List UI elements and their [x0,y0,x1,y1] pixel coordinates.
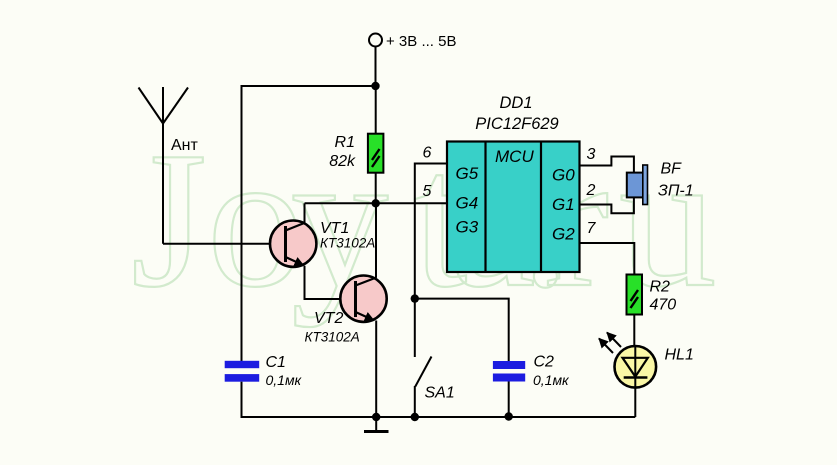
svg-text:C2: C2 [534,354,555,371]
capacitor C1 [225,354,303,388]
wire: VT1 emitter to VT2 base [305,266,355,299]
resistor R1 82k [329,134,383,173]
node: SA1 / ground rail junction [411,413,419,421]
wire: R2 bottom to LED [633,315,635,347]
svg-text:G4: G4 [456,194,479,213]
antenna [139,87,199,244]
transistor VT1 [270,220,375,267]
svg-text:3: 3 [587,146,596,163]
node: pin6 / SA1 / C2 junction [411,294,419,302]
buzzer BF ZP-1 [627,161,694,205]
svg-text:SA1: SA1 [425,385,455,402]
svg-text:PIC12F629: PIC12F629 [475,115,558,133]
svg-text:7: 7 [587,220,597,237]
wire: node to C2 [415,299,509,362]
resistor R2 470 [627,275,677,315]
wire: pin5 horizontal [305,202,448,204]
svg-text:G3: G3 [456,218,479,237]
LED arrow 1 [599,339,613,354]
svg-text:82k: 82k [329,153,356,170]
wire: pin3 to buzzer [580,157,634,173]
wire: VT2 emitter down to ground rail [375,321,377,418]
power terminal + 3V...5V [369,33,456,50]
svg-text:G2: G2 [552,225,575,244]
wire: bottom ground rail [242,416,636,418]
wire: antenna to VT1 base [163,243,285,245]
svg-text:470: 470 [650,297,677,314]
svg-text:C1: C1 [266,354,286,371]
svg-text:Ант: Ант [171,137,199,154]
svg-text:HL1: HL1 [665,347,694,364]
svg-text:VT2: VT2 [314,310,343,327]
wire: pin7 to R2 [580,243,635,275]
svg-text:G5: G5 [456,164,479,183]
LED arrow 2 [607,333,621,348]
svg-text:G0: G0 [552,166,575,185]
svg-text:ЗП-1: ЗП-1 [658,183,694,200]
wire: +rail left [242,85,376,87]
svg-text:G1: G1 [552,195,575,214]
svg-text:BF: BF [661,161,683,178]
MCU DD1 PIC12F629 [447,94,580,272]
svg-text:КТ3102А: КТ3102А [320,236,375,251]
node: VT2 emitter / ground junction [372,413,380,421]
wire: VT1 collector riser [304,203,306,223]
wire: pin2 to buzzer [580,197,634,213]
node: C2 / ground rail junction [505,412,513,420]
wire: C2 bottom to ground rail [508,382,510,418]
svg-text:0,1мк: 0,1мк [266,372,303,388]
svg-text:+ 3В ... 5В: + 3В ... 5В [386,33,456,50]
svg-text:6: 6 [423,145,432,162]
svg-text:2: 2 [586,182,596,199]
svg-text:DD1: DD1 [499,94,532,112]
wire: left rail down to C1 [241,85,243,362]
switch SA1 [415,299,455,417]
svg-text:КТ3102А: КТ3102А [305,330,360,345]
wire: R1 top [375,86,377,134]
wire: R1 bottom to node [375,173,377,204]
node: +rail junction [371,82,379,90]
transistor VT2 [305,276,387,345]
wire: pin6 to SA1 node [415,164,447,299]
LED HL1 [615,346,694,417]
capacitor C2 [493,354,570,389]
svg-text:R1: R1 [335,134,355,151]
wire: VT2 collector riser [375,203,377,278]
svg-text:5: 5 [423,183,432,200]
svg-text:VT1: VT1 [320,220,349,237]
wire: C1 bottom to ground rail [241,382,243,418]
node: R1 / pin5 / VT2 collector junction [372,199,380,207]
ground [364,417,389,432]
wire: terminal to +rail node [375,47,377,87]
svg-text:MCU: MCU [495,147,534,166]
svg-text:R2: R2 [650,279,671,296]
svg-text:0,1мк: 0,1мк [533,372,570,388]
